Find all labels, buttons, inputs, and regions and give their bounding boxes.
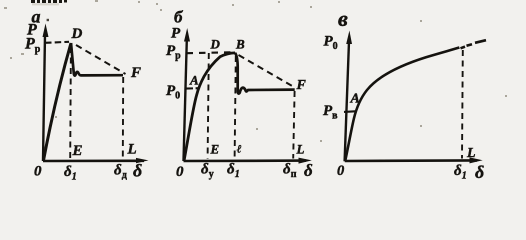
- dashed vertical B to iota: [235, 56, 236, 159]
- delta axis (horizontal): [43, 160, 144, 163]
- svg-text:A: A: [189, 73, 199, 88]
- dashed vertical to L: [461, 50, 464, 159]
- svg-text:B: B: [235, 37, 245, 52]
- delta axis (horizontal): [345, 159, 477, 162]
- svg-text:D: D: [71, 26, 83, 42]
- svg-text:F: F: [130, 65, 141, 81]
- dashed diagonal D to F: [76, 45, 126, 74]
- delta axis (horizontal): [184, 159, 307, 162]
- svg-text:в: в: [338, 6, 348, 31]
- dashed continuation of curve: [461, 40, 487, 48]
- svg-text:D: D: [210, 36, 221, 51]
- P axis (vertical): [345, 44, 349, 161]
- svg-text:0: 0: [337, 163, 344, 179]
- dashed vertical D to E: [69, 47, 72, 159]
- drop and zigzag after D: [71, 43, 123, 76]
- dashed vertical F to L: [122, 77, 124, 159]
- svg-text:L: L: [296, 142, 305, 157]
- svg-text:δ: δ: [475, 162, 484, 182]
- svg-text:L: L: [466, 146, 476, 161]
- svg-text:E: E: [210, 142, 220, 157]
- P_p dashed level: [187, 52, 234, 53]
- svg-text:δ: δ: [304, 161, 313, 180]
- svg-text:0: 0: [34, 164, 42, 180]
- load curve: [345, 48, 459, 162]
- svg-text:L: L: [127, 142, 137, 158]
- P_p dashed level: [45, 42, 69, 43]
- dashed diagonal B to F: [239, 55, 295, 87]
- drop and zigzag after B: [235, 53, 295, 94]
- load curve to B: [184, 53, 235, 161]
- svg-text:0: 0: [176, 164, 184, 180]
- svg-text:ℓ: ℓ: [237, 144, 242, 156]
- svg-text:P: P: [171, 26, 181, 42]
- svg-text:E: E: [72, 143, 83, 159]
- dashed vertical F to L: [293, 91, 294, 159]
- P axis (vertical): [43, 34, 45, 161]
- scan artifact stripes top-left: [47, 19, 49, 21]
- svg-text:δ: δ: [133, 161, 142, 181]
- dashed vertical D to E: [208, 53, 209, 159]
- svg-text:F: F: [296, 78, 307, 93]
- svg-text:A: A: [350, 92, 360, 107]
- P_0 dashed level: [186, 87, 199, 90]
- P_v tick level: [344, 110, 355, 113]
- elastic rise line to D: [44, 43, 72, 161]
- faint scan speckles: [32, 3, 59, 5]
- P axis (vertical): [184, 40, 187, 161]
